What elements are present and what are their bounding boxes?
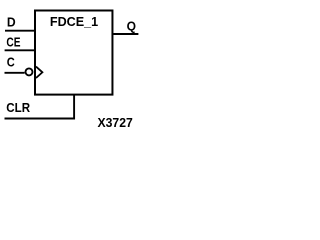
pin label C	[7, 54, 15, 69]
svg-text:CLR: CLR	[6, 100, 30, 115]
pin label D	[7, 15, 16, 30]
flip-flop body U1 (FDCE_1 symbol box)	[35, 11, 112, 95]
wire D input	[5, 30, 34, 32]
svg-text:D: D	[7, 15, 16, 30]
svg-text:CE: CE	[6, 34, 20, 49]
label FDCE_1	[50, 14, 98, 29]
wire Q output	[113, 33, 138, 35]
wire CLR input (horizontal then up to box bottom)	[5, 95, 75, 119]
clock edge triangle	[36, 67, 42, 78]
wire CE input	[5, 49, 34, 51]
svg-text:FDCE_1: FDCE_1	[50, 14, 98, 29]
svg-text:Q: Q	[127, 18, 136, 33]
pin label CLR	[6, 100, 30, 115]
inverter bubble on C clock input	[26, 68, 33, 75]
pin label CE	[6, 34, 20, 49]
wire C input	[5, 72, 25, 74]
svg-text:C: C	[7, 54, 15, 69]
pin label Q	[127, 18, 136, 33]
svg-text:X3727: X3727	[98, 115, 133, 130]
part number label X3727	[98, 115, 133, 130]
